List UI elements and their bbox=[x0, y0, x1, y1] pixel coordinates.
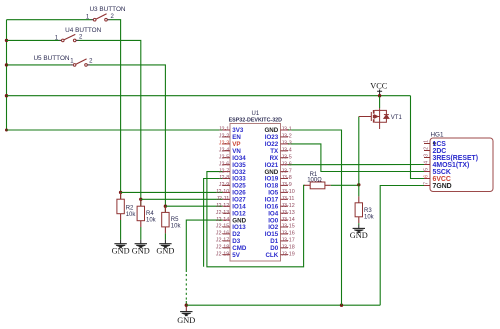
svg-text:U4 BUTTON: U4 BUTTON bbox=[65, 27, 101, 34]
wire IO21 J3-6 to HG1 MOS1 bbox=[288, 164, 424, 166]
svg-text:J3-11: J3-11 bbox=[281, 196, 294, 202]
wire IO33 wire bbox=[204, 179, 223, 267]
wire R3 top lead bbox=[358, 196, 360, 202]
pin J2-5 IO34 bbox=[223, 157, 230, 159]
wire R2 to GND bbox=[120, 220, 122, 240]
wire U5 to IO14 vertical bbox=[90, 65, 165, 213]
svg-text:5: 5 bbox=[424, 168, 430, 171]
pin J2-15 IO13 bbox=[223, 226, 230, 228]
svg-text:GND: GND bbox=[350, 231, 368, 240]
svg-text:J3-6: J3-6 bbox=[281, 161, 292, 167]
junction bus-U4 row bbox=[5, 39, 8, 42]
pin HG1-7 7GND bbox=[424, 185, 430, 187]
svg-text:R4: R4 bbox=[146, 211, 154, 217]
svg-text:J3-3: J3-3 bbox=[281, 141, 292, 147]
svg-text:CLK: CLK bbox=[265, 252, 278, 259]
svg-text:J2-19: J2-19 bbox=[216, 251, 230, 257]
wire ESP32 GND J2-14 to corner bbox=[186, 220, 222, 272]
pin HG1-1 1CS bbox=[424, 143, 430, 145]
svg-text:2DC: 2DC bbox=[433, 148, 447, 155]
svg-text:J2-2: J2-2 bbox=[219, 134, 230, 140]
wire R3 bottom lead bbox=[358, 217, 360, 223]
pin J2-7 IO32 bbox=[223, 171, 230, 173]
pin J3-13 IO4 bbox=[281, 212, 289, 214]
wire IO27 branch wire bbox=[141, 198, 223, 200]
svg-text:J3-18: J3-18 bbox=[281, 245, 295, 251]
pin J3-15 IO2 bbox=[281, 226, 289, 228]
pin J3-1 GND bbox=[281, 129, 289, 131]
pin J2-13 IO12 bbox=[223, 212, 230, 214]
svg-text:J3-19: J3-19 bbox=[281, 251, 295, 257]
wire bus to ESP32 3V3 bbox=[7, 129, 223, 131]
pin J2-17 D3 bbox=[223, 240, 230, 242]
pin J2-6 IO35 bbox=[223, 164, 230, 166]
svg-text:J2-15: J2-15 bbox=[216, 224, 230, 230]
wire U3 pin1 wire bbox=[7, 19, 92, 21]
svg-text:VT1: VT1 bbox=[391, 115, 403, 121]
wire VT1 source from VCC bbox=[379, 96, 381, 108]
svg-text:J2-7: J2-7 bbox=[219, 168, 230, 174]
svg-text:2: 2 bbox=[424, 147, 430, 150]
pin J2-8 IO33 bbox=[223, 178, 230, 180]
svg-text:4MOS1(TX): 4MOS1(TX) bbox=[433, 162, 470, 169]
wire IO32 wire around box to R1 bbox=[207, 172, 305, 267]
svg-text:R5: R5 bbox=[171, 217, 179, 223]
wire U3 to IO26 vertical bbox=[110, 20, 121, 200]
junction gate-R1-R3 node bbox=[357, 183, 360, 186]
svg-text:GND: GND bbox=[132, 246, 150, 255]
svg-text:4: 4 bbox=[424, 161, 430, 164]
svg-text:GND: GND bbox=[177, 316, 195, 325]
junction bus-U5 row bbox=[5, 63, 8, 66]
switch U5 contacts and lever bbox=[73, 59, 87, 66]
pin J3-12 IO16 bbox=[281, 205, 289, 207]
svg-text:IO14: IO14 bbox=[232, 203, 246, 210]
switch U4 contacts and lever bbox=[62, 34, 76, 41]
wire VCC rail down to HG1 pin6 bbox=[411, 96, 425, 179]
svg-text:10k: 10k bbox=[146, 217, 157, 223]
svg-text:J2-3: J2-3 bbox=[219, 141, 230, 147]
svg-text:7: 7 bbox=[424, 182, 430, 185]
svg-text:IO25: IO25 bbox=[232, 183, 246, 190]
svg-text:J3-1: J3-1 bbox=[281, 127, 292, 133]
pin J2-3 VP bbox=[223, 143, 230, 145]
svg-text:VCC: VCC bbox=[370, 81, 388, 90]
svg-text:HG1: HG1 bbox=[431, 132, 444, 139]
pin J2-12 IO14 bbox=[223, 205, 230, 207]
wire R3 top wire bbox=[358, 185, 360, 197]
pin J2-18 CMD bbox=[223, 247, 230, 249]
pin J3-3 IO22 bbox=[281, 143, 289, 145]
svg-text:J2-12: J2-12 bbox=[216, 203, 230, 209]
svg-text:10k: 10k bbox=[171, 224, 182, 230]
svg-text:J3-14: J3-14 bbox=[281, 217, 295, 223]
svg-text:J3-13: J3-13 bbox=[281, 210, 295, 216]
wire R1 to gate junction bbox=[331, 184, 359, 186]
svg-text:1: 1 bbox=[424, 140, 430, 143]
wire R2 bottom lead bbox=[120, 214, 122, 220]
svg-text:IO16: IO16 bbox=[265, 203, 279, 210]
pin J2-1 3V3 bbox=[223, 129, 230, 131]
svg-text:D2: D2 bbox=[232, 231, 240, 238]
svg-text:J3-10: J3-10 bbox=[281, 189, 295, 195]
svg-text:J2-14: J2-14 bbox=[216, 217, 230, 223]
svg-text:J3-7: J3-7 bbox=[281, 168, 292, 174]
ground GND under R3 bbox=[358, 225, 360, 228]
pin J3-6 IO21 bbox=[281, 164, 289, 166]
svg-text:7GND: 7GND bbox=[433, 183, 452, 190]
op-amp U1 ESP32-DEVKITC-32D module body bbox=[230, 124, 281, 262]
pin J3-2 IO23 bbox=[281, 136, 289, 138]
pin J2-11 IO27 bbox=[223, 198, 230, 200]
svg-text:ESP32-DEVKITC-32D: ESP32-DEVKITC-32D bbox=[229, 117, 283, 123]
svg-text:J2-18: J2-18 bbox=[216, 245, 230, 251]
wire R4 bottom lead bbox=[140, 221, 142, 227]
junction VCC rail - VT1 source bbox=[378, 94, 381, 97]
svg-text:IO15: IO15 bbox=[265, 231, 279, 238]
svg-text:R2: R2 bbox=[126, 206, 134, 212]
connector HG1 body bbox=[430, 138, 493, 192]
pin J3-8 IO19 bbox=[281, 178, 289, 180]
ground GND bottom flag bbox=[185, 305, 187, 311]
wire GND wire dashed part bbox=[185, 274, 187, 301]
junction bottom GND junction bbox=[185, 304, 188, 307]
svg-text:J2-17: J2-17 bbox=[216, 238, 230, 244]
junction V2-IO27 branch bbox=[139, 198, 142, 201]
pin J3-5 RX bbox=[281, 157, 289, 159]
svg-text:J3-9: J3-9 bbox=[281, 182, 292, 188]
svg-text:J2-13: J2-13 bbox=[216, 210, 230, 216]
wire U5 pin1 stub bbox=[70, 64, 72, 66]
pin J3-18 D0 bbox=[281, 247, 289, 249]
svg-text:U1: U1 bbox=[252, 111, 260, 117]
wire R5 top lead bbox=[164, 206, 166, 213]
junction bus-VCC rail bbox=[5, 94, 8, 97]
svg-text:6VCC: 6VCC bbox=[433, 176, 451, 183]
svg-text:J3-5: J3-5 bbox=[281, 154, 292, 160]
pin HG1-4 4MOS1(TX) bbox=[424, 164, 430, 166]
wire U4 pin1 wire bbox=[7, 39, 60, 41]
pin HG1-6 6VCC bbox=[424, 178, 430, 180]
svg-text:J2-16: J2-16 bbox=[216, 231, 230, 237]
wire R2 top lead bbox=[120, 192, 122, 199]
HG1 pin-1 mark bbox=[433, 142, 436, 145]
svg-text:J3-8: J3-8 bbox=[281, 175, 292, 181]
wire R1 left lead bbox=[304, 184, 310, 186]
wire IO14 branch wire bbox=[165, 205, 222, 207]
wire VT1 gate vertical bbox=[358, 117, 360, 185]
pin J3-10 IO5 bbox=[281, 191, 289, 193]
wire R4 to GND bbox=[140, 227, 142, 240]
svg-text:EN: EN bbox=[232, 134, 241, 141]
pin J2-10 IO26 bbox=[223, 191, 230, 193]
wire IO22 J3-3 to HG1 SCK bbox=[288, 144, 424, 172]
svg-text:3: 3 bbox=[424, 154, 430, 157]
svg-text:GND: GND bbox=[156, 246, 174, 255]
wire R5 to GND bbox=[164, 233, 166, 239]
svg-text:R3: R3 bbox=[364, 208, 372, 214]
wire U4 to IO27 vertical bbox=[79, 40, 141, 206]
wire R1 right lead bbox=[325, 184, 331, 186]
pin HG1-3 3RES(RESET) bbox=[424, 157, 430, 159]
svg-text:J3-17: J3-17 bbox=[281, 238, 295, 244]
svg-text:5SCK: 5SCK bbox=[433, 169, 451, 176]
svg-text:10k: 10k bbox=[126, 212, 137, 218]
pin J2-9 IO25 bbox=[223, 184, 230, 186]
pin J3-11 IO17 bbox=[281, 198, 289, 200]
junction V1-IO26 branch bbox=[119, 191, 122, 194]
pin HG1-2 2DC bbox=[424, 150, 430, 152]
svg-text:5V: 5V bbox=[232, 252, 240, 259]
svg-text:J3-15: J3-15 bbox=[281, 224, 295, 230]
junction V3-IO14 branch bbox=[164, 205, 167, 208]
wire ESP32 right GND J3-1 rail bbox=[288, 130, 342, 305]
pin J2-4 VN bbox=[223, 150, 230, 152]
pin J3-16 IO15 bbox=[281, 233, 289, 235]
pin HG1-5 5SCK bbox=[424, 171, 430, 173]
wire HG1 GND pin7 wire bbox=[380, 186, 424, 306]
svg-text:U3 BUTTON: U3 BUTTON bbox=[89, 6, 125, 13]
svg-text:J2-1: J2-1 bbox=[219, 127, 230, 133]
pin J3-19 CLK bbox=[281, 254, 289, 256]
junction bus-3V3 wire corner bbox=[5, 129, 8, 132]
pin J3-17 D1 bbox=[281, 240, 289, 242]
wire R4 top lead bbox=[140, 199, 142, 206]
svg-text:J2-5: J2-5 bbox=[219, 154, 230, 160]
svg-text:6: 6 bbox=[424, 175, 430, 178]
pin J2-2 EN bbox=[223, 136, 230, 138]
pin J3-14 IO0 bbox=[281, 219, 289, 221]
switch U3 contacts and lever bbox=[93, 14, 107, 21]
ground GND under R5 bbox=[164, 240, 166, 244]
svg-text:J3-16: J3-16 bbox=[281, 231, 295, 237]
ground GND under R2 bbox=[120, 240, 122, 244]
wire U5 pin2 stub bbox=[87, 64, 90, 66]
wire U3 pin1 stub bbox=[91, 19, 93, 21]
svg-text:1CS: 1CS bbox=[433, 141, 447, 148]
wire U4 pin2 stub bbox=[76, 39, 79, 41]
pin J3-9 IO18 bbox=[281, 184, 289, 186]
svg-text:J2-6: J2-6 bbox=[219, 161, 230, 167]
wire bottom GND rail bbox=[186, 304, 380, 306]
svg-text:J2-10: J2-10 bbox=[216, 189, 230, 195]
pin J2-19 5V bbox=[223, 254, 230, 256]
pin J3-7 GND bbox=[281, 171, 289, 173]
ground GND under R4 bbox=[140, 240, 142, 244]
pin J2-14 GND bbox=[223, 219, 230, 221]
svg-text:J3-12: J3-12 bbox=[281, 203, 295, 209]
wire IO26 branch wire bbox=[121, 191, 223, 193]
wire U4 pin1 stub bbox=[59, 39, 62, 41]
wire U3 pin2 stub bbox=[107, 19, 110, 21]
svg-text:J2-4: J2-4 bbox=[219, 148, 230, 154]
svg-text:GND: GND bbox=[112, 246, 130, 255]
pin J2-16 D2 bbox=[223, 233, 230, 235]
svg-text:J2-8: J2-8 bbox=[219, 175, 230, 181]
svg-text:U5 BUTTON: U5 BUTTON bbox=[33, 55, 69, 62]
wire GND wire tail bbox=[185, 301, 187, 305]
pin J3-4 TX bbox=[281, 150, 289, 152]
wire R5 bottom lead bbox=[164, 227, 166, 234]
svg-text:3RES(RESET): 3RES(RESET) bbox=[433, 155, 479, 162]
svg-text:IO21: IO21 bbox=[265, 162, 279, 169]
svg-text:10k: 10k bbox=[364, 215, 375, 221]
wire VCC rail horizontal bbox=[7, 95, 411, 97]
wire R3 to GND bbox=[358, 223, 360, 225]
svg-text:J2-11: J2-11 bbox=[216, 196, 229, 202]
svg-text:J3-2: J3-2 bbox=[281, 134, 292, 140]
wire left VCC bus vertical bbox=[6, 20, 8, 130]
junction bottom rail - ESP32 right GND bbox=[340, 304, 343, 307]
svg-text:J3-4: J3-4 bbox=[281, 148, 292, 154]
svg-text:IO23: IO23 bbox=[265, 134, 279, 141]
svg-text:J2-9: J2-9 bbox=[219, 182, 230, 188]
svg-text:IO35: IO35 bbox=[232, 162, 246, 169]
svg-text:IO18: IO18 bbox=[265, 183, 279, 190]
wire U5 pin1 wire bbox=[7, 64, 71, 66]
svg-text:100Ω: 100Ω bbox=[307, 178, 322, 184]
